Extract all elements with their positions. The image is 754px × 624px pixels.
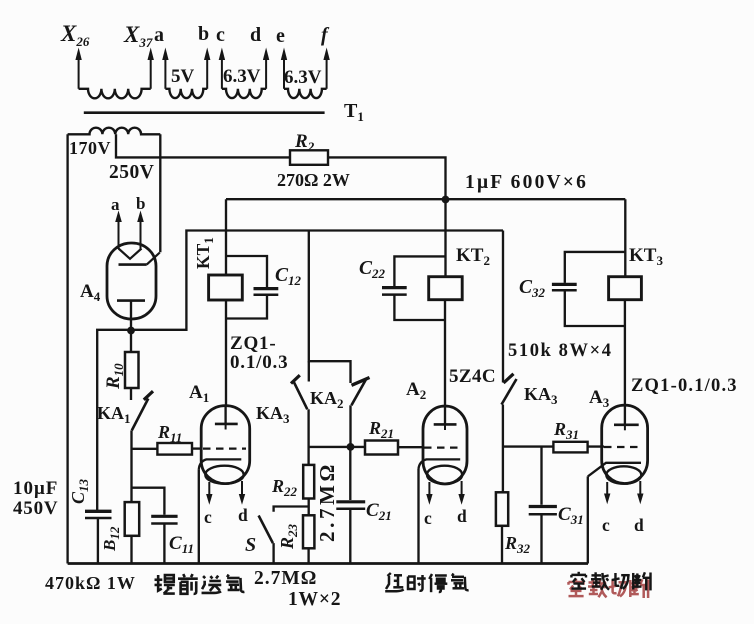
svg-text:X26: X26 — [60, 21, 90, 49]
svg-text:R21: R21 — [368, 418, 394, 441]
svg-text:10μF: 10μF — [13, 478, 58, 499]
svg-text:c: c — [602, 515, 610, 535]
svg-text:a: a — [154, 24, 164, 46]
svg-text:R31: R31 — [553, 419, 579, 442]
svg-text:KT2: KT2 — [456, 245, 490, 268]
svg-text:R11: R11 — [157, 422, 182, 445]
svg-text:R23: R23 — [277, 523, 300, 550]
svg-text:KT3: KT3 — [629, 245, 663, 268]
svg-text:A4: A4 — [80, 281, 101, 304]
svg-text:B12: B12 — [100, 526, 122, 552]
svg-text:KA2: KA2 — [310, 388, 344, 411]
svg-text:KA3: KA3 — [524, 384, 558, 407]
svg-text:R32: R32 — [504, 533, 531, 556]
svg-text:KA1: KA1 — [97, 403, 131, 426]
svg-text:A1: A1 — [189, 382, 209, 405]
svg-text:C11: C11 — [169, 533, 194, 556]
svg-text:c: c — [204, 507, 212, 527]
svg-text:170V: 170V — [69, 138, 111, 158]
svg-text:b: b — [198, 23, 209, 45]
svg-text:C31: C31 — [558, 504, 584, 527]
svg-text:ZQ1-0.1/0.3: ZQ1-0.1/0.3 — [631, 376, 738, 396]
svg-text:C32: C32 — [519, 277, 546, 300]
svg-text:C21: C21 — [366, 500, 392, 523]
svg-text:250V: 250V — [109, 162, 154, 183]
svg-text:R10: R10 — [103, 363, 126, 390]
svg-text:ZQ1-: ZQ1- — [230, 333, 276, 354]
svg-text:450V: 450V — [13, 498, 58, 519]
svg-text:0.1/0.3: 0.1/0.3 — [230, 352, 288, 373]
svg-text:d: d — [238, 505, 248, 525]
svg-text:a: a — [111, 195, 120, 214]
svg-text:1μF 600V×6: 1μF 600V×6 — [465, 172, 588, 193]
svg-text:X37: X37 — [123, 22, 153, 50]
svg-text:2.7MΩ: 2.7MΩ — [315, 461, 339, 542]
svg-text:6.3V: 6.3V — [223, 66, 261, 87]
svg-text:R2: R2 — [294, 131, 315, 154]
svg-text:b: b — [136, 194, 145, 213]
svg-text:5V: 5V — [171, 66, 195, 87]
svg-text:R22: R22 — [271, 476, 298, 499]
svg-text:270Ω 2W: 270Ω 2W — [277, 170, 350, 190]
svg-text:6.3V: 6.3V — [284, 67, 322, 88]
svg-text:510k 8W×4: 510k 8W×4 — [508, 341, 613, 361]
svg-text:C12: C12 — [275, 265, 302, 288]
svg-text:C13: C13 — [68, 478, 91, 504]
svg-text:A2: A2 — [406, 379, 426, 402]
svg-text:KA3: KA3 — [256, 403, 290, 426]
svg-text:1W×2: 1W×2 — [288, 589, 341, 610]
svg-text:KT1: KT1 — [193, 237, 216, 269]
svg-text:5Z4C: 5Z4C — [449, 366, 496, 387]
svg-text:T1: T1 — [344, 100, 364, 124]
svg-text:A3: A3 — [589, 387, 610, 410]
svg-text:f: f — [321, 24, 330, 46]
svg-text:c: c — [216, 24, 225, 46]
svg-text:d: d — [250, 24, 261, 46]
svg-text:470kΩ 1W: 470kΩ 1W — [45, 573, 136, 593]
svg-text:S: S — [245, 534, 256, 556]
svg-text:e: e — [276, 25, 285, 47]
svg-text:d: d — [634, 515, 644, 535]
svg-text:c: c — [424, 508, 432, 528]
svg-text:d: d — [457, 506, 467, 526]
svg-text:C22: C22 — [359, 258, 386, 281]
svg-text:2.7MΩ: 2.7MΩ — [254, 568, 317, 589]
